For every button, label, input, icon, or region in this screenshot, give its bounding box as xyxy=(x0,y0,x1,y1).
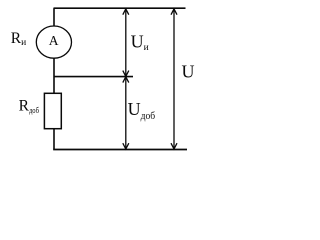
wire left vertical (resistor to bottom wire) xyxy=(53,129,55,150)
svg-text:A: A xyxy=(49,33,59,48)
svg-text:Uдоб: Uдоб xyxy=(128,99,156,122)
dimension arrow Uдоб (middle wire to bottom wire) xyxy=(123,77,129,149)
wire middle horizontal xyxy=(54,76,133,78)
wire left vertical (ammeter to resistor, through middle node) xyxy=(53,58,55,93)
wire left vertical (top wire to ammeter) xyxy=(53,8,55,26)
svg-text:U: U xyxy=(182,62,195,82)
dimension arrow Uи (top wire to middle wire) xyxy=(123,9,129,77)
dimension arrow U (top wire to bottom wire) xyxy=(171,9,177,149)
ammeter A (circle) xyxy=(36,26,71,58)
svg-text:Rи: Rи xyxy=(11,30,26,48)
wire top horizontal xyxy=(54,7,186,9)
svg-text:Rдоб: Rдоб xyxy=(19,97,39,115)
svg-text:Uи: Uи xyxy=(131,32,149,53)
resistor Rдоб (rectangle) xyxy=(44,93,61,128)
wire bottom horizontal xyxy=(53,149,187,151)
